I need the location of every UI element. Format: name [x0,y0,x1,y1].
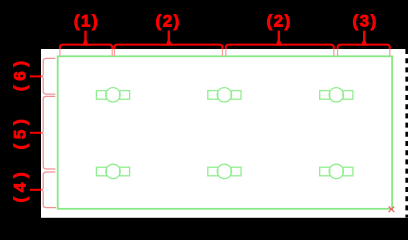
sheet boundary dashed line (right edge) [405,49,408,218]
left brace (6) [41,58,55,94]
pointer line (5) [30,132,41,134]
component footprint row2 col2 [208,164,241,178]
component footprint row1 col2 [208,88,241,102]
pointer line (6) [30,75,41,77]
svg-text:(1): (1) [74,12,99,31]
bracket (2)L peak stem [166,40,173,45]
pointer line (4) [30,189,41,191]
svg-text:(2): (2) [156,12,181,31]
dimension bracket (3) [338,45,390,49]
component footprint row1 col3 [320,88,353,102]
bracket (2)R peak stem [276,40,283,45]
left brace (5) [41,96,55,169]
svg-text:(4): (4) [10,168,29,203]
left brace (4) [41,172,56,208]
component footprint row2 col3 [320,164,353,178]
dimension bracket (2) left [114,45,222,49]
board outline (green rectangle) [58,56,392,209]
dimension bracket (1) [60,45,112,49]
svg-text:(6): (6) [10,56,29,91]
dimension extension lines (pink, under top brackets) [60,47,390,56]
svg-text:(2): (2) [266,12,291,31]
dimension bracket (2) right [226,45,334,49]
origin marker X at board corner [389,206,395,212]
component footprint row2 col1 [96,164,129,178]
bracket (3) peak stem [361,40,368,45]
component footprint row1 col1 [96,88,129,102]
drawing sheet (white panel area) [41,49,408,218]
svg-text:(5): (5) [10,115,29,150]
svg-text:(3): (3) [352,12,377,31]
bracket (1) peak stem [82,40,89,45]
